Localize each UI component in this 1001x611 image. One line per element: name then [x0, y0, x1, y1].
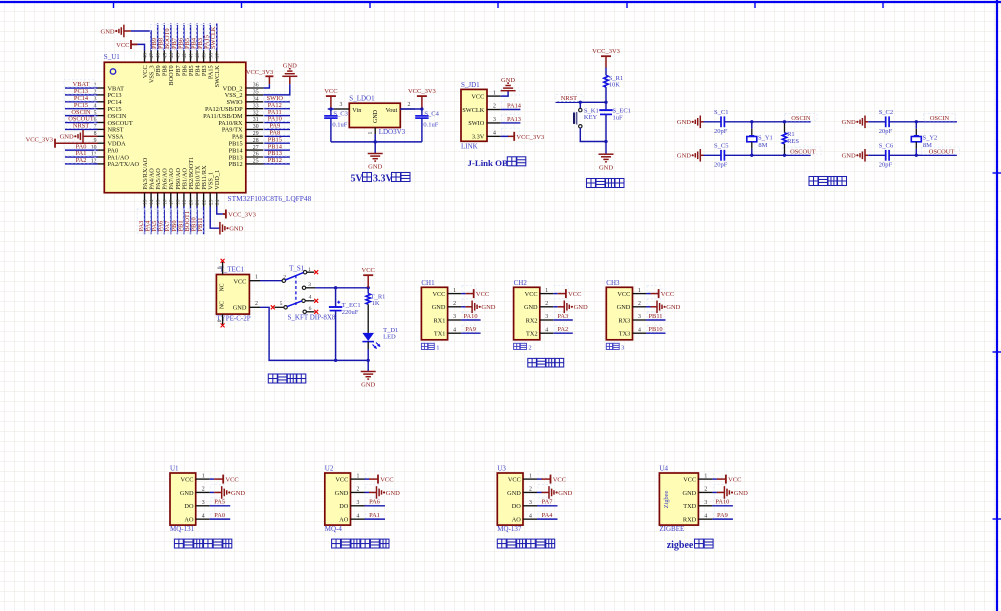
wire net PA11 [263, 115, 290, 117]
svg-text:Vin: Vin [352, 107, 362, 114]
net label PA11 [264, 107, 290, 115]
net label OSCIN [64, 107, 95, 115]
wire net PA2 [65, 163, 98, 165]
svg-text:PA2: PA2 [76, 157, 87, 164]
svg-text:S_C5: S_C5 [714, 143, 728, 150]
svg-text:8M: 8M [758, 142, 767, 149]
net label NRST [64, 121, 95, 129]
CH2 pins 1-4 [540, 286, 569, 334]
svg-text:1: 1 [638, 288, 641, 294]
svg-text:VCC_3V3: VCC_3V3 [228, 211, 256, 218]
svg-text:GND: GND [101, 28, 115, 35]
svg-text:6: 6 [309, 306, 312, 312]
mcu U1 pin names [108, 64, 244, 189]
ground ldo [368, 153, 383, 155]
svg-text:NC: NC [220, 301, 226, 309]
junction rail cap [334, 359, 337, 362]
svg-text:U4: U4 [659, 465, 668, 473]
svg-text:PA13: PA13 [507, 116, 521, 123]
wire net PB7 top [176, 24, 178, 51]
svg-text:RX2: RX2 [526, 317, 538, 324]
svg-text:DO: DO [512, 503, 522, 510]
svg-text:2: 2 [202, 487, 205, 493]
svg-text:0.1uF: 0.1uF [423, 122, 438, 129]
resistor S_R1 10K [604, 75, 623, 88]
wire net NRST [65, 128, 98, 130]
U2 pins 1-4 [351, 471, 379, 519]
net label PB4 [190, 25, 198, 50]
svg-text:PA2: PA2 [557, 326, 568, 333]
ground jlink [501, 90, 516, 92]
wire net PA4 bottom [150, 207, 152, 235]
ground at VSS_2 [282, 63, 297, 84]
wire net PB5 top [189, 24, 191, 51]
wire VSS_1 to GND bottom [210, 207, 220, 229]
wire net PA10 [712, 505, 733, 507]
wire net PA9 [712, 518, 733, 520]
wire net PA6 [365, 505, 386, 507]
svg-text:1: 1 [545, 288, 548, 294]
net label PB3 [196, 25, 204, 50]
mcu U1 top pins 48-37 [143, 51, 221, 63]
svg-text:U3: U3 [497, 465, 506, 473]
net label NRST [556, 94, 583, 102]
svg-text:VCC: VCC [380, 477, 393, 484]
svg-text:34: 34 [253, 97, 259, 103]
svg-text:1uF: 1uF [613, 115, 624, 122]
svg-text:16: 16 [162, 199, 168, 205]
svg-text:AO: AO [184, 516, 194, 523]
wire reset top [605, 68, 607, 76]
svg-text:S_JD1: S_JD1 [461, 81, 480, 89]
wire net PA1 [65, 156, 98, 158]
svg-text:AO: AO [339, 516, 349, 523]
net label PA1 [64, 149, 95, 157]
wire net PA6 bottom [163, 207, 165, 235]
svg-text:17: 17 [169, 199, 175, 205]
connector S_JD1 body [461, 89, 487, 141]
junction res bottom [783, 154, 786, 157]
svg-text:26: 26 [253, 152, 259, 158]
svg-text:OSCOUT: OSCOUT [929, 148, 955, 155]
svg-text:NC: NC [220, 283, 226, 291]
net label OSCIN [924, 114, 956, 122]
module U2 body [325, 473, 351, 525]
ldo pin 3 Vin [334, 102, 349, 109]
junction crystal top [750, 120, 753, 123]
svg-text:SWCLK: SWCLK [210, 26, 217, 49]
svg-text:VCC: VCC [471, 93, 484, 100]
svg-text:GND: GND [677, 153, 691, 160]
svg-text:1: 1 [704, 473, 707, 479]
jlink pins 1-4 [487, 88, 520, 137]
svg-text:2: 2 [704, 487, 707, 493]
net label PB14 [264, 142, 290, 150]
title serial circuit [528, 358, 564, 367]
svg-text:GND: GND [231, 490, 245, 497]
net label PB12 [264, 156, 290, 164]
svg-text:20pF: 20pF [714, 128, 728, 135]
wire net PA8 [263, 135, 290, 137]
wire net PA0 [65, 149, 98, 151]
title methane detect module [332, 539, 389, 548]
ground power block [361, 371, 376, 373]
net label OSCIN [785, 114, 817, 122]
net label PC13 [64, 87, 95, 95]
wire net PB1 bottom [183, 207, 185, 235]
svg-text:38: 38 [208, 53, 214, 59]
svg-text:5: 5 [280, 301, 283, 307]
wire net VBAT [65, 87, 98, 89]
svg-text:37: 37 [215, 53, 221, 59]
junction crystal top [915, 120, 918, 123]
svg-text:DO: DO [184, 503, 194, 510]
mcu U1 body STM32F103C8T6_LQFP48 [104, 62, 246, 192]
junction Vout [420, 107, 423, 110]
wire net PB9 top [157, 24, 159, 51]
ground U4 [712, 486, 748, 499]
net label PA0 [64, 142, 95, 150]
wire key bottom [580, 128, 606, 142]
svg-text:Zigbee: Zigbee [663, 491, 670, 509]
net label PB5 [183, 25, 191, 50]
svg-text:PA10: PA10 [715, 499, 729, 506]
capacitor S_C3 0.1uF [324, 110, 348, 141]
junction crystal bottom [915, 154, 918, 157]
svg-text:S_C4: S_C4 [424, 110, 439, 117]
wire net PC14 [65, 101, 98, 103]
svg-text:VCC: VCC [476, 291, 489, 298]
svg-text:GND: GND [335, 490, 349, 497]
power VCC led [362, 267, 375, 288]
svg-text:GND: GND [283, 63, 297, 70]
svg-text:OSCIN: OSCIN [791, 115, 811, 122]
capacitor S_EC1 1uF [599, 102, 631, 141]
svg-text:S_U1: S_U1 [104, 53, 120, 61]
power VCC_3V3 at VDD_2 [246, 69, 274, 84]
svg-text:VCC_3V3: VCC_3V3 [516, 134, 544, 141]
wire net PA13 [501, 122, 521, 124]
svg-text:1: 1 [529, 473, 532, 479]
svg-text:28: 28 [253, 138, 259, 144]
wire net SWIO [263, 101, 290, 103]
tec1 pin 2 GND [249, 301, 260, 307]
mcu U1 left pins 1-12 [91, 83, 105, 165]
ground U3 [537, 486, 573, 499]
wire net PA9 [263, 128, 290, 130]
svg-text:14: 14 [149, 199, 155, 205]
svg-text:MQ-131: MQ-131 [170, 525, 195, 533]
svg-text:0.1uF: 0.1uF [332, 122, 347, 129]
svg-text:GND: GND [842, 153, 856, 160]
svg-text:NRST: NRST [73, 123, 89, 130]
svg-text:36: 36 [253, 83, 259, 89]
svg-text:VCC: VCC [568, 291, 581, 298]
svg-text:32: 32 [253, 110, 259, 116]
svg-text:46: 46 [156, 53, 162, 59]
U1 pins 1-4 [196, 471, 224, 519]
wire led to rail [367, 349, 369, 372]
svg-text:TXD: TXD [683, 503, 696, 510]
junction NRST key [579, 101, 582, 104]
net label BOOT0 [163, 25, 171, 50]
svg-text:2: 2 [528, 345, 531, 352]
svg-text:GND: GND [617, 304, 631, 311]
svg-text:CH3: CH3 [606, 279, 620, 287]
svg-text:TX3: TX3 [619, 331, 631, 338]
svg-text:VCC_3V3: VCC_3V3 [408, 88, 436, 95]
svg-text:PB12: PB12 [268, 157, 282, 164]
wire jlink VCC to GND [501, 91, 508, 96]
net label PB13 [264, 149, 290, 157]
wire net PA3 [553, 319, 573, 321]
svg-text:18: 18 [175, 199, 181, 205]
svg-text:3: 3 [529, 500, 532, 506]
wire net PA2 [553, 332, 573, 334]
junction rail led [367, 359, 370, 362]
ground S_C6 bottom left [842, 149, 869, 162]
svg-text:S_Y2: S_Y2 [923, 135, 938, 142]
svg-text:1: 1 [308, 267, 311, 273]
svg-text:VCC: VCC [225, 477, 238, 484]
wire resistor to node [605, 87, 607, 102]
svg-text:STM32F103C8T6_LQFP48: STM32F103C8T6_LQFP48 [228, 194, 312, 203]
connector CH3 body [606, 287, 632, 340]
wire Vin [328, 108, 334, 110]
comment serial port 2 [514, 343, 532, 351]
svg-text:22: 22 [202, 199, 208, 205]
wire ldo gnd stub [374, 134, 376, 154]
wire net PA4 [537, 518, 558, 520]
wire net PB14 [263, 149, 290, 151]
power VCC U3 [537, 475, 566, 484]
CH1 pins 1-4 [448, 286, 477, 334]
svg-text:GND: GND [524, 304, 538, 311]
connector CH1 body [421, 287, 447, 340]
wire key top [579, 102, 581, 108]
wire jlink 3.3V [501, 135, 508, 137]
svg-text:VDD_1: VDD_1 [214, 170, 221, 190]
wire net PA3 bottom [144, 207, 146, 235]
wire net PB4 top [196, 24, 198, 51]
wire top left S_C2 [868, 121, 886, 123]
svg-text:PA6: PA6 [369, 499, 380, 506]
svg-text:1: 1 [255, 274, 258, 280]
power VCC_3V3 reset [592, 48, 620, 68]
svg-text:23: 23 [208, 199, 214, 205]
capacitor S_C6 20pF [879, 143, 894, 169]
wire net PA12 [263, 108, 290, 110]
svg-text:R1: R1 [787, 131, 795, 138]
svg-text:20pF: 20pF [879, 128, 893, 135]
capacitor S_C4 0.1uF [415, 109, 439, 142]
svg-text:47: 47 [149, 53, 155, 59]
svg-text:220uF: 220uF [342, 309, 359, 316]
svg-text:PB11: PB11 [649, 313, 663, 320]
svg-text:T_S1: T_S1 [289, 264, 305, 272]
wire net PB11 bottom [203, 207, 205, 235]
wire net PB13 [263, 156, 290, 158]
wire net OSCIN [65, 115, 98, 117]
connector T_TEC1 TYPE-C-2P body [216, 275, 249, 315]
CH3 pins 1-4 [633, 286, 662, 334]
comment serial port 1 [421, 343, 439, 351]
wire net PB11 [646, 319, 666, 321]
svg-text:4: 4 [357, 513, 360, 519]
svg-text:21: 21 [195, 199, 201, 205]
power VCC top [116, 40, 137, 49]
wire OSCOUT [889, 154, 957, 156]
net label PB1 [177, 209, 185, 233]
svg-text:31: 31 [253, 117, 259, 123]
net label PA9 [264, 121, 290, 129]
svg-text:42: 42 [182, 53, 188, 59]
svg-text:LDO3V3: LDO3V3 [379, 128, 406, 136]
power VCC ldo input [324, 88, 337, 109]
svg-text:VCC: VCC [432, 291, 445, 298]
ground CH2 [553, 301, 588, 314]
wire net BOOT1 bottom [189, 207, 191, 235]
svg-text:39: 39 [202, 53, 208, 59]
net label PB10 [190, 209, 198, 233]
wire net PB15 [263, 142, 290, 144]
module U4 body [659, 473, 698, 525]
svg-text:LED: LED [383, 333, 396, 340]
svg-text:S_C3: S_C3 [333, 110, 347, 117]
net label PA8 [264, 128, 290, 136]
svg-text:19: 19 [182, 199, 188, 205]
svg-text:PA9: PA9 [465, 326, 476, 333]
svg-text:J-Link OB: J-Link OB [468, 158, 508, 168]
svg-text:3: 3 [638, 314, 641, 320]
svg-text:AO: AO [512, 516, 522, 523]
power VCC_3V3 pin9 [26, 136, 98, 147]
svg-text:4: 4 [453, 327, 456, 333]
svg-text:4: 4 [202, 513, 205, 519]
wire net PA7 bottom [170, 207, 172, 235]
svg-text:VCC: VCC [617, 291, 630, 298]
capacitor S_C1 20pF [714, 109, 728, 135]
junction cap branch [334, 286, 337, 289]
net label PB15 [264, 135, 290, 143]
junction Vin [329, 107, 332, 110]
svg-text:1: 1 [368, 132, 374, 135]
svg-text:20pF: 20pF [879, 162, 893, 169]
svg-text:3: 3 [453, 314, 456, 320]
svg-text:GND: GND [373, 109, 379, 123]
capacitor S_C5 20pF [714, 143, 728, 169]
net label BOOT1 [183, 209, 191, 233]
net label VBAT [64, 80, 95, 88]
wire top left S_C1 [704, 121, 722, 123]
svg-text:GND: GND [558, 490, 572, 497]
svg-text:GND: GND [666, 304, 680, 311]
net label PC15 [64, 101, 95, 109]
net label PA3 [137, 209, 145, 233]
wire OSCIN [889, 121, 957, 123]
svg-text:4: 4 [309, 295, 312, 301]
net label PB0 [170, 209, 178, 233]
pushbutton S_K1 KEY [573, 107, 599, 128]
junction NRST cap [604, 101, 607, 104]
svg-text:PA14: PA14 [507, 103, 522, 110]
wire bottom left S_C6 [868, 154, 886, 156]
svg-text:41: 41 [189, 53, 195, 59]
wire OSCOUT [724, 154, 810, 156]
tec1 top pin 0 unconnected [217, 259, 225, 275]
svg-text:S_C2: S_C2 [879, 109, 893, 116]
svg-text:GND: GND [361, 382, 375, 389]
svg-text:GND: GND [842, 119, 856, 126]
svg-text:30: 30 [253, 124, 259, 130]
crystal S_Y2 8M [911, 122, 937, 156]
svg-text:PA5: PA5 [214, 499, 225, 506]
ground S_C5 bottom left [677, 149, 704, 162]
svg-text:43: 43 [175, 53, 181, 59]
svg-text:GND: GND [432, 304, 446, 311]
svg-text:U2: U2 [325, 465, 334, 473]
svg-text:VCC: VCC [661, 291, 674, 298]
svg-text:GND: GND [180, 490, 194, 497]
net label OSCOUT [783, 147, 821, 155]
net label PA4 [144, 209, 152, 233]
net label PB8 [157, 25, 165, 50]
svg-text:GND: GND [683, 490, 697, 497]
ground bottom VSS_1 [219, 222, 221, 235]
net label PA7 [163, 209, 171, 233]
junction reset gnd [604, 140, 607, 143]
ground CH3 [646, 301, 681, 314]
svg-text:13: 13 [143, 199, 149, 205]
ground reset [599, 153, 614, 155]
svg-text:3: 3 [545, 314, 548, 320]
wire net PA9 [461, 332, 481, 334]
power VCC U4 [712, 475, 741, 484]
svg-text:VCC: VCC [362, 267, 375, 274]
svg-text:GND: GND [229, 226, 243, 233]
svg-text:2: 2 [408, 102, 411, 108]
svg-text:40: 40 [195, 53, 201, 59]
title crystal circuit [809, 177, 847, 186]
wire net PB6 top [183, 24, 185, 51]
svg-text:2: 2 [255, 301, 258, 307]
crystal S_Y1 8M [747, 122, 773, 156]
title power circuit [268, 374, 306, 383]
no-connect x pin5 [271, 305, 275, 309]
svg-text:3: 3 [621, 345, 624, 352]
svg-text:33: 33 [253, 103, 259, 109]
svg-text:3.3V: 3.3V [373, 174, 394, 185]
svg-text:S_C1: S_C1 [714, 109, 728, 116]
net label SWIO [264, 94, 290, 102]
title 5V to 3.3V circuit [351, 173, 411, 185]
svg-text:1K: 1K [372, 300, 380, 307]
svg-text:VCC: VCC [525, 291, 538, 298]
wire net PB10 [646, 332, 666, 334]
svg-text:GND: GND [481, 304, 495, 311]
net label PA5 [150, 209, 158, 233]
svg-text:3: 3 [202, 500, 205, 506]
svg-text:35: 35 [253, 90, 259, 96]
svg-text:U1: U1 [170, 465, 179, 473]
svg-text:VCC: VCC [508, 476, 521, 483]
svg-text:3: 3 [340, 102, 343, 108]
wire VDD_2 to VCC_3V3 [263, 84, 269, 88]
svg-text:GND: GND [599, 164, 613, 171]
net label PB7 [170, 25, 178, 50]
svg-text:GND: GND [574, 304, 588, 311]
svg-text:CH1: CH1 [421, 279, 435, 287]
